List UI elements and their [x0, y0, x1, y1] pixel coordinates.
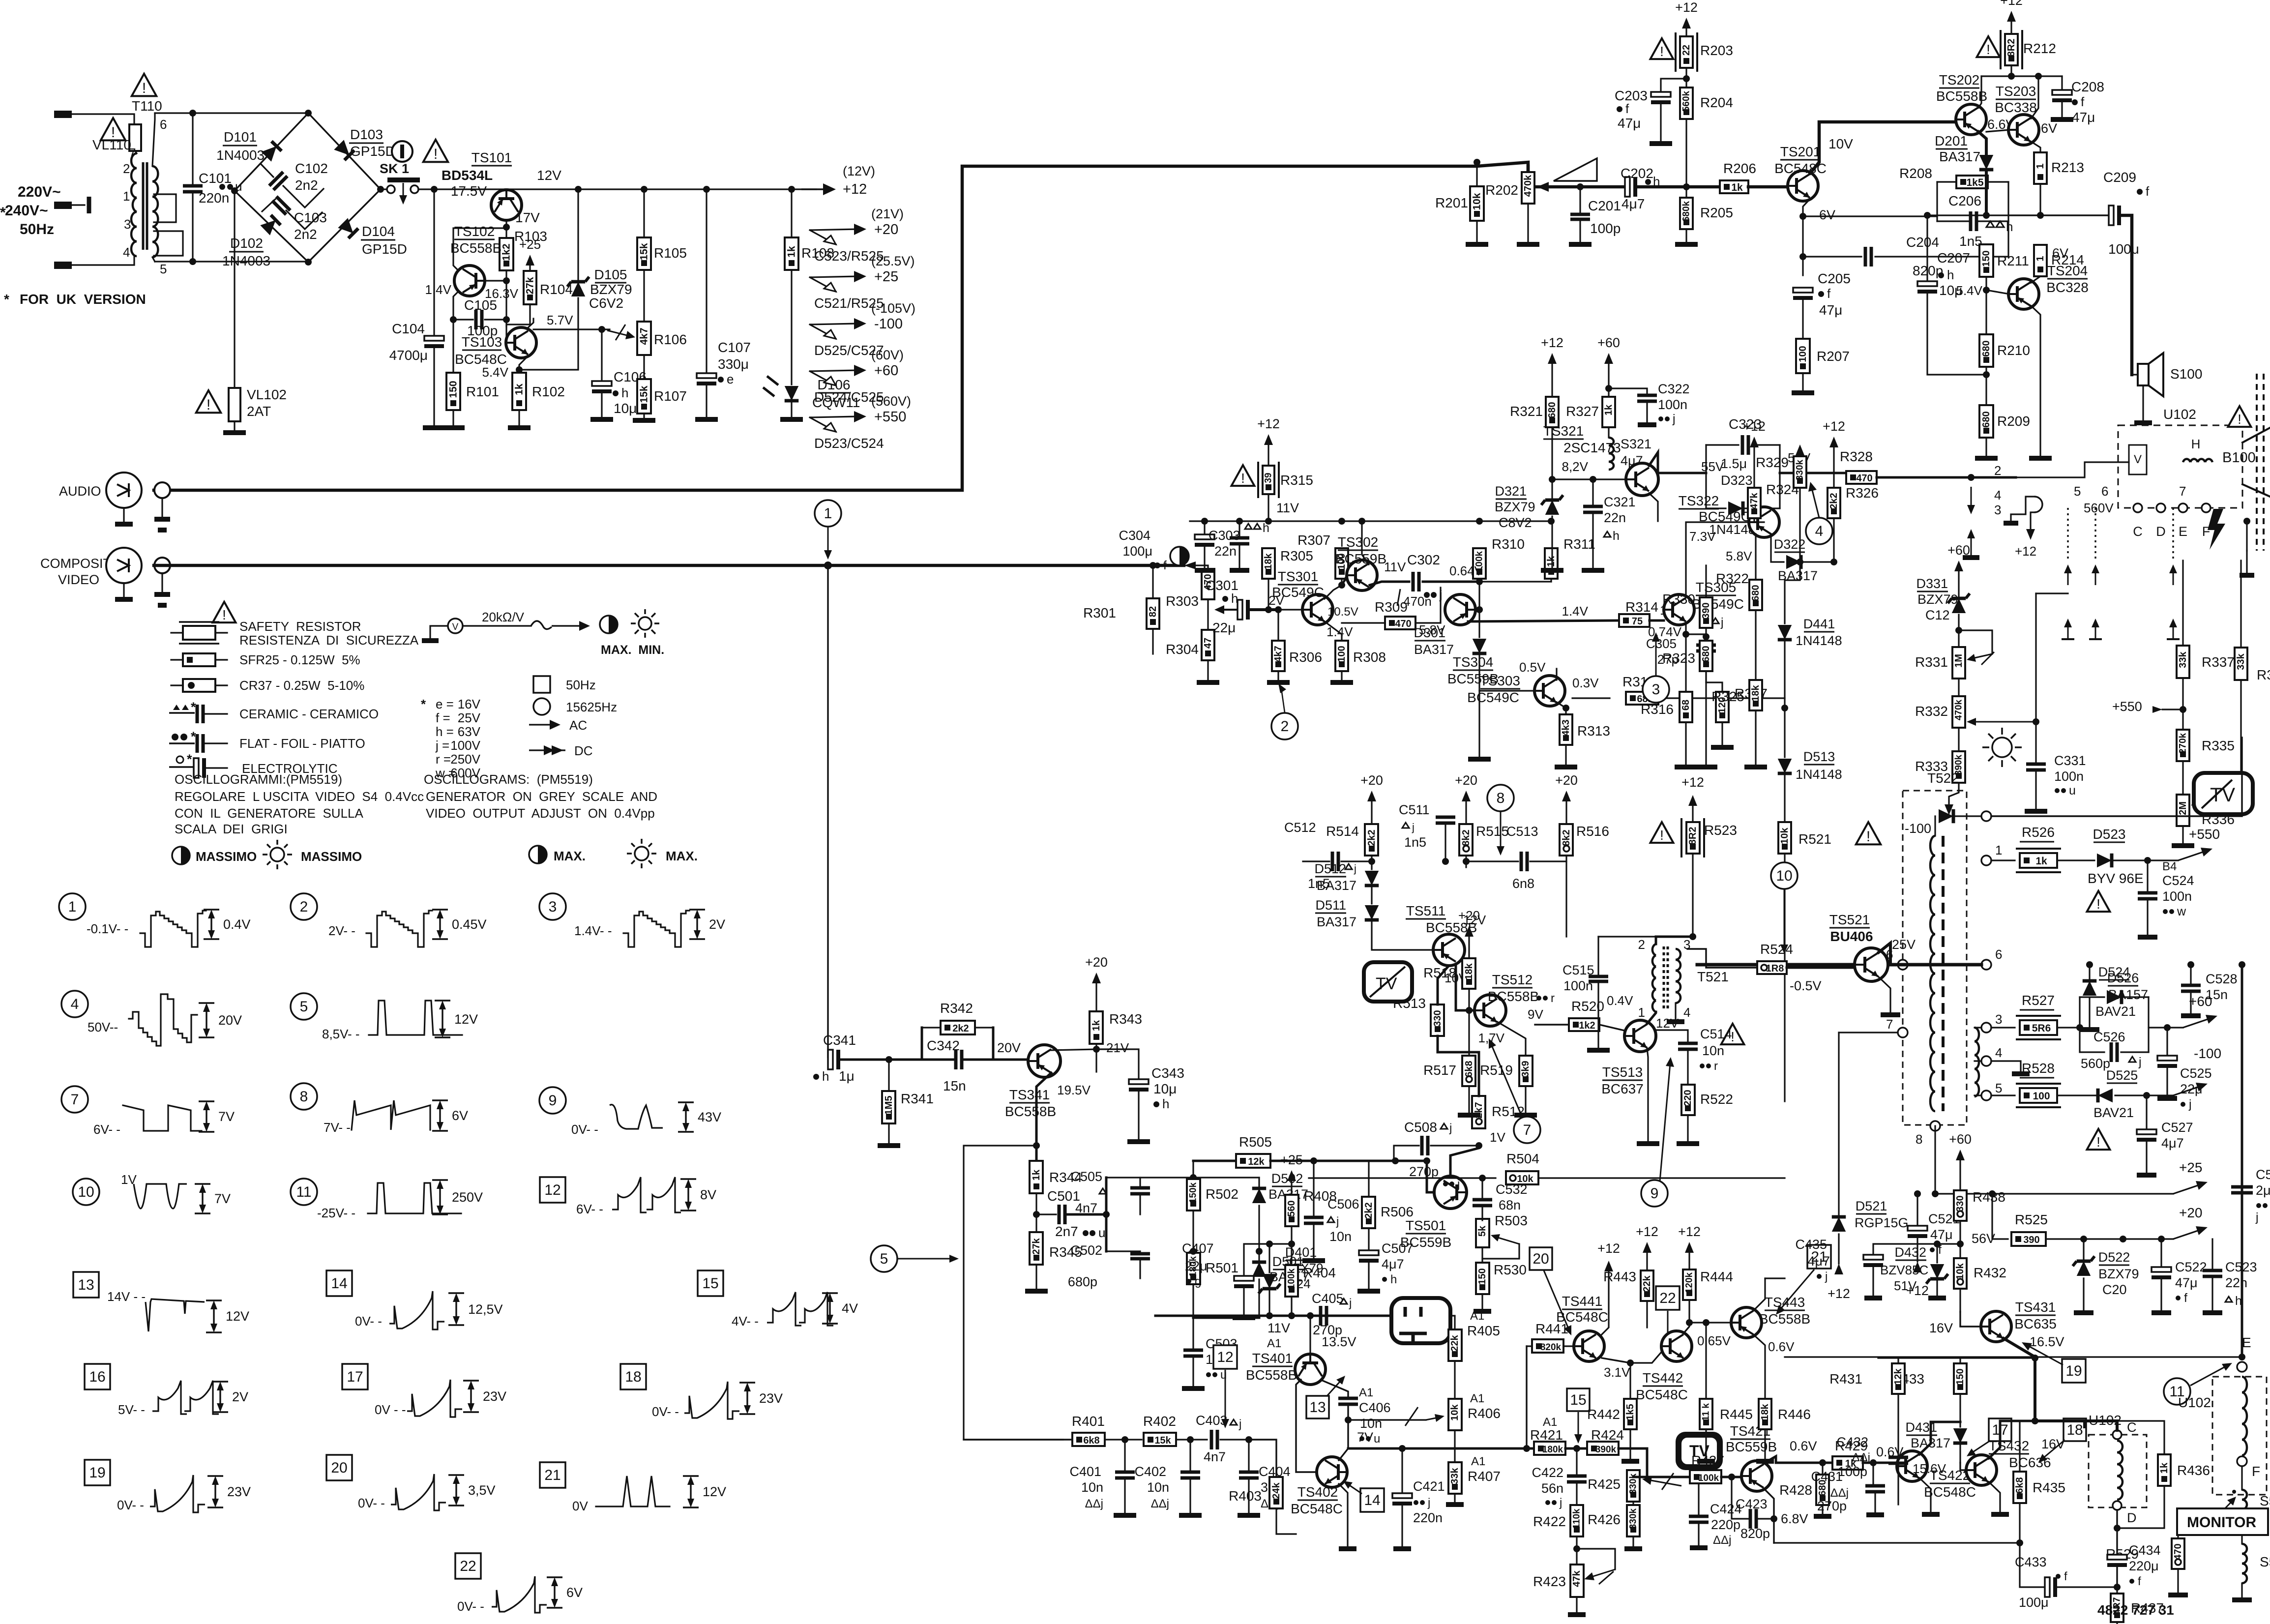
- svg-text:0V- -: 0V- -: [358, 1496, 385, 1510]
- svg-text:BZX79: BZX79: [1495, 500, 1535, 514]
- resistor R103: [500, 238, 513, 270]
- svg-text:D511: D511: [1315, 898, 1346, 913]
- bottom rail to E node: [1785, 1356, 2242, 1358]
- svg-text:1k: 1k: [2035, 856, 2047, 867]
- svg-text:REGOLARE L USCITA VIDEO S4: REGOLARE L USCITA VIDEO S4 0.4Vcc: [175, 789, 424, 804]
- capacitor C501: [1036, 1213, 1056, 1215]
- svg-text:15k: 15k: [639, 385, 650, 403]
- transistor TS501: [1434, 1176, 1467, 1209]
- capacitor C406: [1338, 1397, 1358, 1400]
- svg-text:AUDIO: AUDIO: [59, 484, 101, 499]
- svg-text:T110: T110: [132, 98, 162, 114]
- svg-text:19: 19: [2065, 1363, 2082, 1379]
- svg-text:+60: +60: [874, 363, 898, 379]
- svg-text:20: 20: [331, 1460, 347, 1476]
- svg-text:15.6V: 15.6V: [1913, 1461, 1946, 1476]
- resistor R337: [2182, 561, 2183, 646]
- svg-text:D524: D524: [2098, 965, 2130, 979]
- svg-text:R432: R432: [1974, 1265, 2006, 1280]
- svg-text:C207: C207: [1937, 250, 1970, 266]
- svg-text:TS103: TS103: [462, 334, 502, 350]
- svg-text:6k8: 6k8: [2014, 1477, 2025, 1493]
- svg-text:8R2: 8R2: [2006, 39, 2017, 57]
- capacitor C527: [2146, 1095, 2147, 1131]
- transformer T521: [1652, 944, 1656, 955]
- box 18 arrow: [2064, 1418, 2086, 1441]
- svg-text:1k: 1k: [1731, 182, 1743, 193]
- resistor R307: [1335, 548, 1348, 579]
- svg-text:BA317: BA317: [1939, 149, 1980, 164]
- svg-text:+12: +12: [1636, 1224, 1658, 1239]
- svg-text:+20: +20: [2179, 1205, 2203, 1220]
- wire TS521 emitter: [1879, 977, 1890, 1013]
- capacitor C404: [1248, 1440, 1249, 1470]
- svg-text:15625Hz: 15625Hz: [566, 700, 617, 714]
- svg-text:BYV 96E: BYV 96E: [2088, 871, 2144, 886]
- svg-text:1: 1: [1995, 843, 2002, 857]
- svg-text:R106: R106: [654, 332, 687, 347]
- resistor R330: [1705, 595, 1707, 597]
- wire TS422 collector: [1919, 1422, 1960, 1454]
- capacitor C511: [1436, 816, 1455, 819]
- wire R203-R204: [1685, 68, 1687, 88]
- svg-text:3: 3: [1994, 502, 2001, 517]
- svg-text:C204: C204: [1906, 235, 1939, 250]
- resistor R342 capacitor C342 parallel: [921, 1028, 923, 1060]
- wire TS432 collector: [1989, 1421, 2035, 1458]
- svg-text:TS431: TS431: [2015, 1299, 2056, 1315]
- resistor R335: [2177, 730, 2189, 761]
- svg-text:R105: R105: [654, 245, 687, 261]
- svg-text:23V: 23V: [483, 1389, 506, 1404]
- svg-text:R322: R322: [1716, 571, 1749, 586]
- CRT heater pins: [2246, 521, 2247, 551]
- resistor R341: [888, 1060, 889, 1091]
- svg-text:680: 680: [1981, 340, 1992, 356]
- svg-text:10: 10: [78, 1184, 94, 1200]
- wire 11V row: [1155, 1315, 1449, 1317]
- svg-text:!: !: [434, 146, 438, 162]
- svg-text:R309: R309: [1375, 599, 1408, 615]
- diode D102: [260, 215, 280, 235]
- svg-text:18k: 18k: [1760, 1403, 1770, 1420]
- svg-text:0.6V: 0.6V: [1790, 1439, 1817, 1453]
- svg-text:C513: C513: [1506, 824, 1538, 839]
- svg-text:1.4V: 1.4V: [425, 282, 452, 297]
- capacitor C532: [1481, 1178, 1483, 1198]
- svg-text:25V: 25V: [1892, 937, 1916, 952]
- svg-text:100n: 100n: [1658, 397, 1687, 412]
- svg-text:+20: +20: [1455, 773, 1477, 788]
- svg-text:TS401: TS401: [1252, 1351, 1293, 1366]
- svg-text:A1: A1: [1267, 1337, 1281, 1350]
- transistor TS305: [1664, 594, 1694, 625]
- svg-text:R526: R526: [2022, 825, 2055, 840]
- power +12 TS441: [1602, 1271, 1609, 1334]
- svg-text:1M5: 1M5: [884, 1096, 894, 1115]
- svg-text:ΔΔj: ΔΔj: [1151, 1497, 1169, 1510]
- ground R201: [1466, 242, 1488, 247]
- capacitor C435: [1873, 1244, 1960, 1256]
- transistor TS101: [491, 190, 522, 220]
- wire TS202 emitter to D201: [1978, 132, 1986, 153]
- svg-text:f: f: [1827, 286, 1831, 301]
- svg-text:12k: 12k: [1893, 1368, 1904, 1385]
- fuse VL102: [229, 388, 240, 421]
- capacitor C525: [2166, 1028, 2168, 1057]
- svg-text:16V: 16V: [458, 697, 481, 711]
- svg-text:0V- -: 0V- -: [355, 1314, 382, 1329]
- svg-text:5.7V: 5.7V: [547, 313, 573, 327]
- svg-text:150: 150: [1477, 1268, 1488, 1284]
- svg-text:C: C: [2127, 1420, 2137, 1435]
- svg-text:C304: C304: [1119, 528, 1150, 543]
- svg-text:D431: D431: [1905, 1420, 1937, 1435]
- svg-text:16: 16: [89, 1369, 105, 1385]
- svg-text:E: E: [2179, 524, 2187, 539]
- svg-text:3: 3: [1652, 681, 1660, 698]
- svg-text:R211: R211: [1997, 253, 2029, 268]
- svg-text:j: j: [1825, 1270, 1828, 1283]
- svg-text:43V: 43V: [698, 1110, 721, 1124]
- svg-text:56V: 56V: [1972, 1231, 1995, 1246]
- resistor R433: [1954, 1363, 1967, 1394]
- transistor TS432: [1966, 1455, 1997, 1485]
- volume tap symbol: [1554, 158, 1597, 181]
- +60 output row pin3: [1991, 1027, 2015, 1028]
- svg-text:22k: 22k: [1449, 1334, 1460, 1351]
- svg-text:R201: R201: [1435, 195, 1468, 210]
- resistor R322: [1755, 534, 1756, 579]
- svg-text:w: w: [2177, 905, 2186, 918]
- svg-text:BA317: BA317: [1317, 878, 1356, 893]
- svg-text:R311: R311: [1563, 536, 1595, 552]
- svg-text:2V: 2V: [1268, 593, 1284, 608]
- box 19 arrow: [2062, 1359, 2086, 1383]
- coil H: [2183, 459, 2190, 462]
- svg-text:R441: R441: [1535, 1321, 1568, 1336]
- svg-text:19.5V: 19.5V: [1057, 1083, 1091, 1097]
- svg-text:*: *: [191, 729, 196, 744]
- svg-text:1: 1: [1638, 1005, 1645, 1020]
- svg-text:820k: 820k: [1540, 1342, 1562, 1353]
- svg-text:(25.5V): (25.5V): [871, 254, 915, 268]
- svg-text:0V- -: 0V- -: [117, 1498, 144, 1512]
- svg-text:5.4V: 5.4V: [482, 365, 509, 380]
- wire connector row: [2016, 462, 2129, 477]
- oscillogram 19: [85, 1460, 110, 1485]
- svg-text:BU406: BU406: [1830, 929, 1873, 944]
- svg-text:R107: R107: [654, 388, 687, 404]
- CRT cathode arrows: [2067, 624, 2069, 639]
- power +60 R327: [1604, 353, 1613, 364]
- wire mains L: [72, 114, 134, 124]
- svg-text:8: 8: [300, 1089, 308, 1105]
- svg-text:R522: R522: [1700, 1092, 1733, 1107]
- resistor R321: [1546, 397, 1559, 427]
- svg-text:D101: D101: [224, 129, 257, 145]
- svg-text:39: 39: [1264, 472, 1274, 483]
- svg-text:2AT: 2AT: [247, 404, 271, 419]
- svg-text:100p: 100p: [1590, 221, 1621, 236]
- capacitor C506: [1313, 1161, 1314, 1215]
- svg-text:TS441: TS441: [1562, 1294, 1603, 1309]
- svg-text:D502: D502: [1271, 1171, 1303, 1186]
- svg-text:u: u: [2069, 784, 2076, 797]
- zener D522: [2083, 1239, 2084, 1259]
- ground D106: [780, 417, 803, 422]
- resistor R436: [2117, 1421, 2164, 1454]
- svg-text:+12: +12: [1823, 419, 1845, 434]
- svg-text:50V--: 50V--: [88, 1020, 118, 1034]
- power +25 and resistor R104: [526, 255, 534, 266]
- potentiometer R303: [1184, 561, 1196, 569]
- svg-text:+20: +20: [1360, 773, 1383, 788]
- svg-text:1N4003: 1N4003: [222, 253, 270, 268]
- pot R332: [1958, 679, 1959, 696]
- svg-text:1: 1: [824, 505, 832, 522]
- svg-text:1k5: 1k5: [1625, 1404, 1636, 1420]
- capacitor C529: [2241, 965, 2243, 1357]
- svg-text:4822 727 31: 4822 727 31: [2097, 1602, 2174, 1618]
- oscillogram 12: [540, 1177, 565, 1203]
- svg-text:BC558B: BC558B: [1759, 1311, 1810, 1327]
- svg-text:BC548C: BC548C: [1291, 1501, 1343, 1516]
- pot arrow R106: [607, 330, 629, 336]
- svg-text:R406: R406: [1468, 1406, 1501, 1421]
- wire node5 feed: [964, 1146, 1063, 1440]
- node 8: [1487, 785, 1514, 811]
- capacitor C104: [433, 189, 435, 337]
- svg-text:4V: 4V: [842, 1301, 858, 1316]
- svg-text:BC559B: BC559B: [1726, 1439, 1777, 1454]
- svg-text:R524: R524: [1760, 942, 1793, 957]
- svg-text:7: 7: [71, 1092, 79, 1108]
- svg-text:MASSIMO: MASSIMO: [301, 849, 362, 864]
- svg-text:R310: R310: [1492, 536, 1525, 552]
- wire T521 secondary to R524: [1687, 949, 1757, 968]
- svg-text:U102: U102: [2178, 1395, 2211, 1410]
- svg-text:R330: R330: [1662, 591, 1695, 607]
- svg-text:4: 4: [1815, 523, 1824, 539]
- svg-text:1.4V: 1.4V: [1562, 604, 1589, 619]
- svg-text:18k: 18k: [1263, 553, 1274, 569]
- resistor R329: [1799, 448, 1800, 455]
- svg-text:TS202: TS202: [1939, 72, 1980, 88]
- svg-text:V: V: [452, 622, 459, 632]
- svg-text:FOR UK VERSION: FOR UK VERSION: [20, 292, 146, 307]
- resistor R437: [2116, 1587, 2118, 1598]
- capacitor C105: [453, 319, 473, 320]
- capacitor C403: [1210, 1430, 1213, 1449]
- wire TS321 collector: [1649, 452, 1706, 473]
- capacitor C107: [706, 189, 707, 375]
- svg-text:R332: R332: [1915, 704, 1948, 719]
- svg-text:-100: -100: [874, 316, 903, 332]
- svg-text:!: !: [222, 607, 226, 622]
- capacitor C424: [1633, 1476, 1713, 1478]
- svg-text:R421: R421: [1530, 1427, 1563, 1443]
- svg-text:R523: R523: [1704, 823, 1737, 838]
- resistor R427: [1690, 1470, 1721, 1483]
- svg-text:+12: +12: [1257, 416, 1280, 431]
- svg-text:R327: R327: [1566, 404, 1599, 419]
- svg-text:+60: +60: [1949, 1132, 1972, 1147]
- svg-text:24k: 24k: [1271, 1482, 1282, 1499]
- svg-text:u: u: [1374, 1432, 1380, 1446]
- capacitor C207: [1926, 215, 1928, 283]
- svg-text:4n7: 4n7: [1075, 1201, 1097, 1215]
- svg-text:BZX79: BZX79: [2098, 1267, 2139, 1281]
- svg-text:R525: R525: [2015, 1212, 2048, 1227]
- oscillogram 13: [73, 1272, 99, 1298]
- power +60 R438: [1956, 1150, 1965, 1160]
- svg-text:12V: 12V: [537, 168, 561, 183]
- resistor R432: [1954, 1258, 1967, 1289]
- resistor R309: [1385, 617, 1415, 629]
- svg-text:-100: -100: [1905, 821, 1931, 836]
- svg-text:330k: 330k: [1795, 459, 1805, 480]
- wire TS421 emitter bold row: [1764, 1456, 1832, 1463]
- svg-text:4k7: 4k7: [1273, 646, 1284, 662]
- capacitor C102: [261, 164, 273, 177]
- svg-text:330: 330: [1955, 1195, 1966, 1211]
- svg-text:C514: C514: [1700, 1027, 1732, 1041]
- svg-text:680p: 680p: [1068, 1274, 1097, 1289]
- svg-text:560k: 560k: [1681, 90, 1692, 112]
- svg-text:18k: 18k: [1750, 684, 1761, 701]
- svg-text:r: r: [1714, 1060, 1718, 1073]
- svg-text:R212: R212: [2023, 41, 2056, 56]
- capacitor C522: [2160, 1239, 2162, 1269]
- oscillogram 22: [455, 1553, 481, 1579]
- capacitor C302: [1412, 572, 1415, 591]
- svg-text:R425: R425: [1588, 1476, 1621, 1492]
- svg-text:C402: C402: [1134, 1464, 1166, 1479]
- svg-text:R503: R503: [1495, 1213, 1528, 1228]
- resistor R312: [1572, 697, 1610, 699]
- svg-text:33k: 33k: [2236, 653, 2246, 670]
- svg-text:h: h: [822, 1069, 829, 1084]
- svg-text:47μ: 47μ: [1618, 116, 1641, 131]
- resistor R524: [1757, 961, 1787, 974]
- svg-text:h: h: [621, 385, 628, 400]
- svg-text:2k2: 2k2: [1366, 829, 1377, 846]
- svg-text:RGP15G: RGP15G: [1855, 1215, 1909, 1230]
- svg-text:C433: C433: [2015, 1555, 2047, 1569]
- svg-text:R341: R341: [901, 1091, 934, 1106]
- ground VL102: [223, 430, 246, 435]
- svg-text:5: 5: [880, 1251, 888, 1267]
- svg-text:R518: R518: [1423, 965, 1456, 980]
- svg-text:100p: 100p: [1838, 1464, 1867, 1479]
- svg-text:R326: R326: [1846, 485, 1879, 501]
- svg-text:D512: D512: [1314, 861, 1346, 876]
- wire to TS201: [1748, 185, 1788, 189]
- resistor R213: [2031, 142, 2040, 153]
- wire top rail to bridge: [155, 112, 308, 114]
- svg-text:6V: 6V: [2041, 121, 2057, 136]
- svg-text:!: !: [1986, 42, 1990, 57]
- capacitor C505: [1106, 1178, 1140, 1186]
- svg-text:!: !: [1241, 471, 1245, 486]
- svg-text:13.5V: 13.5V: [1322, 1334, 1356, 1349]
- svg-text:20V: 20V: [997, 1040, 1021, 1055]
- svg-text:4k7: 4k7: [639, 327, 650, 345]
- svg-text:51V: 51V: [1894, 1278, 1917, 1293]
- svg-text:+25: +25: [2179, 1160, 2203, 1175]
- svg-text:ΔΔj: ΔΔj: [1830, 1486, 1849, 1500]
- output +550 tap: [810, 416, 858, 417]
- svg-text:R213: R213: [2051, 160, 2084, 175]
- svg-text:h =: h =: [436, 724, 454, 739]
- capacitor C431: [1872, 1463, 1874, 1484]
- svg-text:BAV21: BAV21: [2095, 1004, 2136, 1019]
- svg-text:g: g: [1195, 1275, 1201, 1288]
- svg-text:TS101: TS101: [472, 150, 512, 165]
- svg-text:+12: +12: [2015, 544, 2036, 559]
- legend 50Hz square: [533, 676, 550, 693]
- svg-text:390: 390: [1701, 602, 1711, 619]
- svg-text:680: 680: [1547, 402, 1558, 418]
- oscillogram 9: [539, 1087, 566, 1114]
- svg-text:j: j: [1449, 1122, 1452, 1135]
- capacitor C103: [262, 199, 275, 211]
- svg-text:1k: 1k: [514, 384, 525, 395]
- transistor TS103: [506, 327, 536, 358]
- wire TS513 collector to T521: [1647, 1012, 1656, 1024]
- oscillogram 3: [539, 893, 566, 920]
- capacitor C209: [2109, 206, 2114, 225]
- svg-text:j: j: [1336, 1215, 1339, 1228]
- svg-text:7: 7: [1523, 1122, 1532, 1138]
- svg-text:!: !: [2096, 896, 2100, 912]
- coil V: [2129, 445, 2147, 474]
- svg-text:1k: 1k: [1091, 1020, 1102, 1031]
- capacitor C524: [2147, 860, 2148, 891]
- svg-text:1k: 1k: [2159, 1462, 2170, 1474]
- transistor TS421: [1741, 1461, 1772, 1491]
- svg-text:D: D: [2127, 1510, 2137, 1525]
- resistor R323: [1700, 641, 1712, 671]
- svg-text:R337: R337: [2202, 654, 2235, 670]
- svg-text:j: j: [1720, 616, 1724, 629]
- svg-text:+12: +12: [1597, 1241, 1620, 1256]
- svg-text:OSCILLOGRAMMI:(PM5519): OSCILLOGRAMMI:(PM5519): [175, 772, 342, 787]
- svg-text:22n: 22n: [2225, 1275, 2247, 1290]
- svg-text:C527: C527: [2161, 1120, 2193, 1135]
- diode D521: [1838, 1033, 1839, 1214]
- capacitor C421: [1401, 1448, 1403, 1495]
- svg-text:16V: 16V: [1929, 1321, 1953, 1335]
- ground C106: [590, 417, 613, 422]
- svg-text:C305: C305: [1646, 636, 1677, 651]
- svg-text:+20: +20: [1555, 773, 1578, 788]
- capacitor C321: [1592, 479, 1593, 504]
- svg-text:BZX79: BZX79: [590, 282, 632, 297]
- svg-text:C515: C515: [1562, 963, 1594, 977]
- resistor R105: [643, 189, 645, 237]
- svg-text:C343: C343: [1151, 1065, 1184, 1081]
- svg-text:470: 470: [1395, 619, 1411, 629]
- legend safety resistor symbol: [171, 632, 183, 633]
- svg-text:270p: 270p: [1409, 1164, 1439, 1179]
- svg-text:18: 18: [625, 1369, 641, 1385]
- node 10: [1771, 862, 1798, 889]
- svg-text:14: 14: [331, 1275, 347, 1292]
- svg-text:MASSIMO: MASSIMO: [196, 849, 257, 864]
- svg-text:R315: R315: [1280, 472, 1313, 488]
